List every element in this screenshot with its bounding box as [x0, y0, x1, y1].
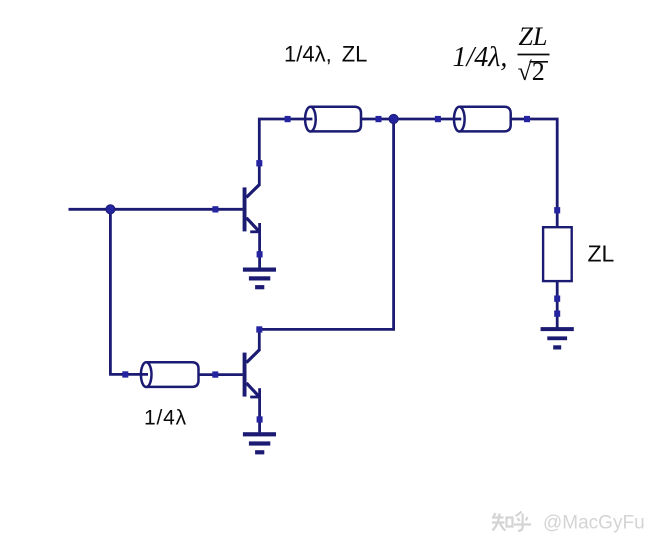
- wire left vertical: [109, 209, 112, 374]
- pin square resistor bottom: [554, 296, 560, 302]
- svg-text:ZL: ZL: [519, 22, 548, 51]
- svg-text:1/4λ,: 1/4λ,: [453, 42, 508, 73]
- wire TL2 to right corner: [511, 119, 558, 227]
- wire Q1 collector vertical: [259, 119, 312, 186]
- pin square resistor top: [554, 207, 560, 213]
- pin square TL3 left: [122, 371, 128, 377]
- wire Q2 collector vertical: [258, 329, 261, 350]
- pin square TL2 left: [435, 116, 441, 122]
- wire input horizontal: [69, 208, 243, 211]
- pin square ground right top: [554, 311, 560, 317]
- wire bottom horizontal to TL3: [109, 373, 148, 376]
- transistor Q1: [243, 184, 260, 232]
- watermark zhihu glyphs: [492, 512, 531, 531]
- ground for Q1: [243, 268, 276, 290]
- pin square TL2 right: [524, 116, 530, 122]
- ground right: [541, 327, 574, 349]
- transmission line TL3 body: [141, 362, 199, 387]
- pin square TL1 left: [285, 116, 291, 122]
- pin square TL1 right: [376, 116, 382, 122]
- wire junction to TL2: [394, 118, 462, 121]
- wire TL1 to junction: [361, 118, 394, 121]
- pin square Q1 emitter: [257, 251, 263, 257]
- wire Q1 emitter vertical: [258, 223, 261, 268]
- pin square Q2 collector: [256, 326, 262, 332]
- sqrt overbar: [530, 61, 549, 63]
- junction dot input: [106, 205, 115, 214]
- pin square Q2 emitter: [257, 416, 263, 422]
- svg-text:ZL: ZL: [588, 241, 615, 267]
- svg-text:1/4λ: 1/4λ: [144, 407, 187, 430]
- wire middle vertical from junction: [259, 119, 393, 329]
- transmission line TL1 body: [305, 107, 361, 132]
- pin square Q1 base: [212, 206, 218, 212]
- svg-text:@MacGyFu: @MacGyFu: [543, 513, 645, 534]
- resistor ZL: [543, 227, 572, 281]
- transistor Q2: [243, 349, 260, 397]
- pin square Q1 collector: [256, 160, 262, 166]
- junction dot top: [389, 114, 398, 123]
- wire Q2 emitter vertical: [258, 388, 261, 432]
- ground for Q2: [243, 432, 276, 454]
- fraction bar: [518, 54, 550, 56]
- pin square TL3 right: [212, 371, 218, 377]
- transmission line TL2 body: [454, 107, 511, 132]
- wire TL3 to Q2 base: [199, 373, 243, 376]
- wire resistor to ground: [556, 281, 559, 328]
- svg-text:1/4λ,ZL: 1/4λ,ZL: [284, 41, 367, 66]
